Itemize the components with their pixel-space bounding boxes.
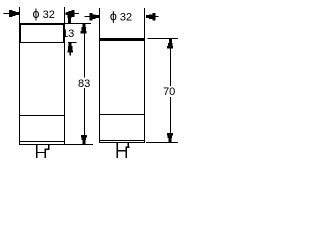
svg-text:83: 83	[78, 78, 90, 90]
dim 13: cap extension line	[68, 42, 77, 43]
phi32 left extension line right	[64, 7, 65, 23]
left stud outer right wall	[48, 145, 50, 149]
left cylinder mid line	[19, 115, 65, 116]
right cylinder band line	[99, 140, 145, 141]
right stud outer right wall	[128, 143, 130, 147]
right stud outer left wall	[117, 143, 119, 147]
phi32 right extension line left	[99, 8, 100, 38]
dim 83: bottom arrowhead	[81, 135, 87, 138]
dim 83: dimension line upper	[84, 24, 85, 78]
right stud inner right wall	[125, 147, 127, 158]
phi32 left: right arrowhead	[65, 13, 68, 16]
svg-text:ϕ 32: ϕ 32	[33, 7, 55, 21]
left cylinder cap bottom line	[19, 42, 65, 43]
phi32 left: left arrowhead	[9, 10, 12, 17]
left stud inner left wall	[36, 149, 37, 158]
right stud bar	[116, 150, 127, 152]
dim 13: up arrowhead	[69, 43, 72, 46]
right cylinder mid line	[99, 114, 145, 115]
left cylinder cap left edge	[19, 25, 21, 42]
right stud inner left wall	[116, 147, 118, 158]
left cylinder cap right edge	[63, 25, 65, 42]
left cylinder band line	[19, 141, 65, 142]
left stud bar	[36, 152, 46, 153]
left cylinder body right edge	[64, 43, 65, 144]
left cylinder body left edge	[19, 43, 20, 144]
dim 83: top extension line	[65, 23, 91, 24]
dim 70: dimension line lower	[170, 97, 171, 142]
dim 13: lower tail	[70, 52, 72, 55]
left cylinder cap top edge	[19, 23, 65, 25]
dim 70: dimension line upper	[170, 39, 171, 86]
svg-text:13: 13	[62, 28, 74, 40]
right cylinder top edge	[99, 38, 145, 41]
svg-text:ϕ 32: ϕ 32	[110, 9, 132, 23]
phi32 left extension line left	[19, 7, 20, 23]
left stud inner right wall	[45, 149, 46, 158]
dim 83: bottom extension line	[65, 144, 93, 145]
phi32 right extension line right	[144, 8, 145, 38]
phi32 right: left arrow tail	[85, 16, 90, 17]
phi32 left: left arrow tail	[4, 13, 10, 14]
right stud step	[125, 147, 129, 148]
dim 83: dimension line lower	[84, 88, 85, 135]
dim 70: top arrowhead	[169, 39, 172, 43]
phi32 right: right arrow tail	[155, 16, 158, 17]
dim 70: bottom extension line	[146, 142, 178, 143]
right cylinder left edge	[99, 41, 100, 142]
phi32 left: right arrow tail	[75, 13, 80, 14]
right cylinder bottom edge	[99, 142, 145, 143]
phi32 right: right arrowhead	[146, 15, 149, 18]
dim 70: top extension line	[148, 38, 178, 39]
right cylinder right edge	[144, 41, 145, 142]
phi32 right: left arrowhead	[89, 13, 92, 21]
left cylinder bottom edge	[19, 144, 65, 145]
dim 13: down arrowhead	[66, 12, 72, 15]
dim 70: bottom arrowhead	[167, 133, 173, 136]
left stud outer left wall	[36, 145, 37, 149]
svg-text:70: 70	[163, 86, 175, 98]
left stud step	[45, 149, 50, 150]
dim 83: top arrowhead	[82, 24, 85, 27]
